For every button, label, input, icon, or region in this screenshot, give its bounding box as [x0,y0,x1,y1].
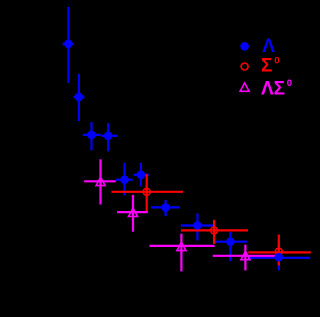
LambdaSigma0 marker 4 [241,251,250,259]
Sigma0 point 1 error bars [112,174,184,212]
Sigma0 marker 3 [275,248,282,255]
LambdaSigma0 marker 1 [96,177,105,185]
LambdaSigma0 (magenta) error bars [84,159,276,271]
svg-text:Σ: Σ [261,56,272,77]
Lambda point 2 error bars [73,74,84,121]
Sigma0 marker 1 [143,188,150,195]
svg-text:0: 0 [287,78,292,89]
Sigma0 point 2 error bars [181,220,248,244]
legend symbol: Lambda filled circle [240,42,249,51]
LambdaSigma0 point 3 error bars [150,234,215,272]
Lambda marker 2 [75,93,84,102]
Lambda point 5 error bars [116,163,133,196]
Lambda point 1 error bars [63,7,74,83]
Lambda point 8 error bars [181,213,214,240]
Lambda marker 5 [120,175,129,184]
LambdaSigma0 marker 2 [129,208,138,216]
Lambda marker 10 [275,253,284,262]
Lambda marker 8 [193,221,202,230]
svg-text:Λ: Λ [262,36,275,57]
Lambda point 4 error bars [101,123,118,151]
Sigma0 (red) error bars [112,174,311,266]
Lambda (blue) error bars [63,7,311,271]
legend symbol: Sigma0 open circle [241,63,248,70]
Lambda marker 9 [226,237,235,246]
LambdaSigma0 point 4 error bars [213,245,276,271]
Lambda point 10 error bars [248,244,310,271]
Sigma0 (red) open circle markers [143,188,282,255]
legend symbol: LambdaSigma0 open triangle [240,83,249,91]
Sigma0 marker 2 [211,227,218,234]
svg-text:0: 0 [274,55,279,66]
Lambda point 9 error bars [215,232,247,261]
Lambda point 7 error bars [151,200,180,216]
Lambda marker 1 [64,40,73,49]
svg-text:ΛΣ: ΛΣ [261,79,285,100]
Lambda marker 4 [104,132,113,141]
Lambda (blue) filled circle markers [64,40,283,262]
LambdaSigma0 point 2 error bars [117,195,148,232]
LambdaSigma0 (magenta) open triangle markers [96,177,250,260]
Sigma0 point 3 error bars [248,235,310,266]
Lambda marker 7 [161,203,170,212]
Lambda point 3 error bars [83,122,101,150]
LambdaSigma0 point 1 error bars [84,159,116,204]
Lambda point 6 error bars [134,163,149,186]
LambdaSigma0 marker 3 [177,242,186,250]
Lambda marker 6 [137,171,146,180]
Lambda marker 3 [87,131,96,140]
